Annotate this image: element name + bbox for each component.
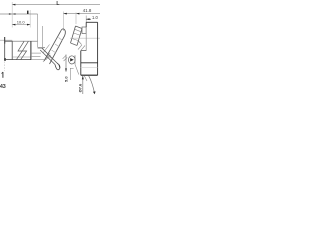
bold edge x31 [30,41,32,60]
leader short [84,76,87,81]
tilted fitting near cylinder [71,26,86,50]
dimension 1.0 [86,16,91,23]
svg-text:Ø7.6: Ø7.6 [78,83,83,92]
dimension L line [12,4,100,6]
extension line x12 [11,2,13,28]
arm band down-right [40,48,60,70]
arrow pair at x12 [9,13,12,15]
dimension 5.0 line [65,55,67,73]
cylinder body [81,22,98,75]
tick x27.5 [27,11,29,14]
arm band up-right [44,29,65,64]
svg-text:43: 43 [0,84,6,90]
stem vertical lines [38,14,45,48]
svg-text:10.0: 10.0 [17,19,26,24]
bulb body [4,41,38,71]
svg-text:1.0: 1.0 [92,15,98,20]
dimension 41.8 line [63,12,100,32]
top edge line y14 [0,13,38,15]
elbow hatch [31,45,51,63]
svg-text:5.0: 5.0 [64,76,69,82]
leader long with arrow [89,76,96,95]
dimension dia 7.6 [82,76,84,94]
extension line x30 [29,10,31,28]
bulb centerline cross [0,37,12,44]
break zigzag in tube [17,41,29,59]
extension line x76 with arrow [76,13,79,25]
svg-text:L: L [56,1,59,7]
svg-text:41.8: 41.8 [83,8,92,13]
tick mark left bottom [2,72,3,78]
cylinder centerline [70,37,100,39]
dimension second line [70,68,73,80]
dimension 10.0 line [12,24,30,26]
fitting nut [63,55,79,74]
boss on cylinder [82,27,86,34]
